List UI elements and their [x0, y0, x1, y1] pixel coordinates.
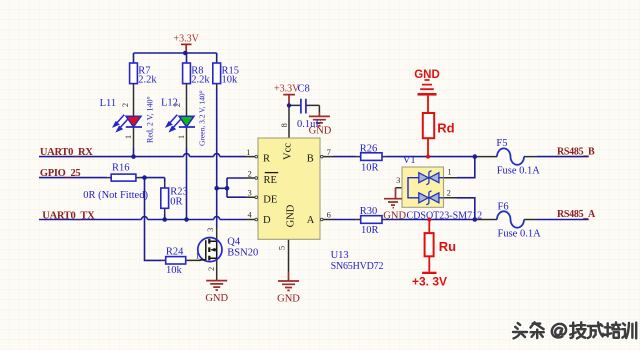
svg-text:GND: GND	[286, 204, 297, 227]
svg-text:BSN20: BSN20	[227, 248, 258, 259]
svg-text:GND: GND	[309, 125, 332, 136]
svg-text:U13: U13	[331, 250, 349, 261]
svg-text:R24: R24	[166, 246, 184, 257]
svg-text:0R (Not Fitted): 0R (Not Fitted)	[83, 190, 148, 201]
svg-text:D: D	[263, 215, 271, 226]
svg-text:Green, 3.2 V, 140°: Green, 3.2 V, 140°	[198, 90, 207, 146]
svg-text:R16: R16	[112, 163, 130, 174]
svg-text:10k: 10k	[166, 265, 183, 276]
svg-text:A: A	[307, 215, 315, 226]
svg-text:GND: GND	[277, 293, 300, 304]
svg-text:RS485_A: RS485_A	[557, 209, 596, 220]
svg-text:1: 1	[195, 251, 199, 261]
svg-text:3: 3	[396, 175, 400, 185]
svg-text:2: 2	[447, 188, 451, 198]
svg-text:2.2k: 2.2k	[191, 75, 210, 86]
svg-text:Vcc: Vcc	[283, 143, 294, 160]
svg-text:7: 7	[327, 147, 331, 157]
svg-text:GND: GND	[383, 211, 406, 222]
svg-text:2: 2	[206, 267, 216, 271]
svg-text:0R: 0R	[170, 197, 182, 208]
svg-text:+3.3V: +3.3V	[274, 84, 300, 95]
svg-text:Rd: Rd	[437, 121, 454, 136]
svg-text:F5: F5	[496, 138, 507, 149]
svg-text:Fuse 0.1A: Fuse 0.1A	[498, 228, 542, 239]
svg-text:4: 4	[247, 210, 252, 220]
svg-text:Fuse 0.1A: Fuse 0.1A	[497, 165, 541, 176]
svg-text:6: 6	[327, 210, 331, 220]
svg-text:F6: F6	[498, 202, 509, 213]
svg-text:2.2k: 2.2k	[138, 75, 157, 86]
svg-text:V1: V1	[403, 155, 416, 166]
svg-text:10R: 10R	[361, 225, 379, 236]
svg-text:CDSOT23-SM712: CDSOT23-SM712	[407, 211, 483, 222]
svg-text:SN65HVD72: SN65HVD72	[331, 261, 384, 272]
svg-text:RS485_B: RS485_B	[557, 146, 595, 157]
svg-text:UART0_RX: UART0_RX	[40, 147, 93, 158]
svg-text:1: 1	[246, 147, 250, 157]
svg-text:Q4: Q4	[227, 236, 241, 247]
svg-text:8: 8	[279, 123, 289, 127]
svg-text:L11: L11	[100, 98, 117, 109]
svg-text:1: 1	[447, 167, 451, 177]
svg-text:1: 1	[123, 135, 133, 139]
svg-text:DE: DE	[263, 194, 277, 205]
svg-text:5: 5	[277, 246, 287, 250]
svg-text:R30: R30	[360, 206, 378, 217]
svg-text:2: 2	[247, 168, 251, 178]
svg-text:Ru: Ru	[439, 239, 456, 254]
svg-text:GND: GND	[205, 293, 228, 304]
svg-text:UART0_TX: UART0_TX	[42, 210, 95, 221]
svg-text:B: B	[307, 153, 314, 164]
svg-text:R26: R26	[360, 144, 378, 155]
svg-text:GND: GND	[414, 69, 440, 81]
svg-text:2: 2	[120, 103, 130, 107]
svg-text:10R: 10R	[361, 162, 379, 173]
svg-text:+3.3V: +3.3V	[174, 34, 200, 45]
svg-text:Red, 2 V, 140°: Red, 2 V, 140°	[145, 96, 154, 143]
svg-text:2: 2	[172, 103, 182, 107]
svg-text:+3. 3V: +3. 3V	[412, 274, 447, 288]
svg-text:10k: 10k	[222, 75, 239, 86]
svg-text:RE: RE	[264, 175, 277, 186]
svg-text:3: 3	[205, 228, 215, 232]
svg-text:GPIO_25: GPIO_25	[40, 168, 81, 179]
svg-text:3: 3	[247, 187, 251, 197]
svg-text:1: 1	[176, 135, 186, 139]
svg-text:R: R	[263, 153, 270, 164]
